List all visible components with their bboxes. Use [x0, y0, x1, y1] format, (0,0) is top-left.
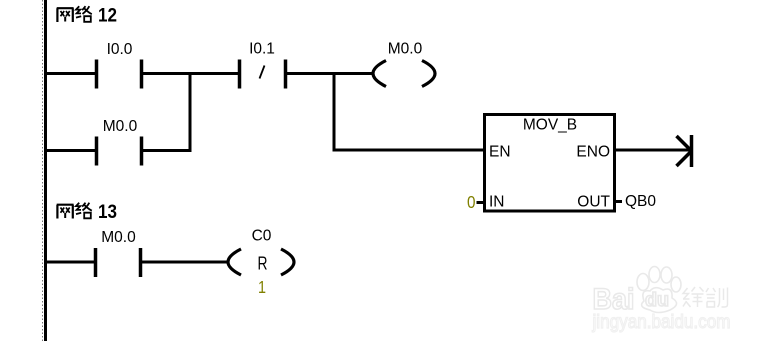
- svg-text:M0.0: M0.0: [103, 118, 138, 135]
- glyph wang (net): [57, 8, 74, 22]
- wire OUT to QB0: [615, 200, 622, 203]
- rung 3 wire from rail to contact M0.0: [45, 261, 95, 264]
- svg-text:I0.0: I0.0: [107, 41, 133, 58]
- wire contact I0.1 to coil M0.0: [287, 72, 375, 75]
- svg-text:R: R: [258, 254, 268, 274]
- svg-text:1: 1: [258, 277, 266, 297]
- dotted margin line: [42, 0, 44, 341]
- network 12 label: [57, 6, 92, 22]
- left power rail: [44, 0, 47, 341]
- coil M0.0: [373, 61, 386, 87]
- svg-text:QB0: QB0: [625, 193, 656, 210]
- svg-text:13: 13: [98, 201, 117, 223]
- svg-text:OUT: OUT: [577, 194, 610, 211]
- branch wire down to EN: [333, 72, 336, 150]
- paw print: [637, 274, 649, 291]
- watermark jing character: [683, 287, 704, 307]
- svg-text:C0: C0: [252, 228, 272, 245]
- rung 1 wire from rail to contact I0.0: [45, 72, 96, 75]
- svg-text:12: 12: [98, 5, 117, 27]
- coil C0 reset: [228, 249, 241, 275]
- rung 2 wire from rail to contact M0.0: [45, 149, 96, 152]
- svg-text:IN: IN: [489, 194, 505, 211]
- continuation arrow: [690, 135, 694, 167]
- glyph luo (collect): [76, 6, 81, 17]
- contact M0.0 (network 13): [94, 248, 98, 277]
- watermark Baidu Jingyan logo: [593, 267, 682, 317]
- watermark yan character: [706, 288, 728, 308]
- wire contact M0.0 to junction: [143, 149, 192, 152]
- box MOV_B: [485, 115, 615, 212]
- contact I0.0: [95, 60, 99, 89]
- glyph wang (net): [57, 205, 74, 219]
- wire ENO to arrow: [615, 149, 691, 152]
- glyph luo (collect): [76, 203, 81, 214]
- network 13 label: [57, 203, 92, 219]
- svg-text:EN: EN: [489, 144, 511, 161]
- wire value 0 to IN: [477, 201, 485, 204]
- svg-text:MOV_B: MOV_B: [523, 117, 577, 134]
- contact I0.1 normally closed: [238, 60, 242, 89]
- contact M0.0 (parallel branch): [95, 137, 99, 166]
- svg-text:M0.0: M0.0: [388, 41, 423, 58]
- junction vertical wire (parallel branch): [189, 72, 192, 152]
- svg-text:jingyan.baidu.com: jingyan.baidu.com: [592, 312, 731, 333]
- wire contact I0.0 to contact I0.1: [143, 72, 239, 75]
- svg-text:I0.1: I0.1: [249, 41, 275, 58]
- svg-text:M0.0: M0.0: [101, 229, 136, 246]
- svg-text:du: du: [645, 290, 669, 311]
- wire contact M0.0 to coil C0: [142, 261, 230, 264]
- wire branch to MOV_B EN: [333, 149, 486, 152]
- svg-text:0: 0: [467, 192, 476, 212]
- svg-text:ENO: ENO: [576, 144, 610, 161]
